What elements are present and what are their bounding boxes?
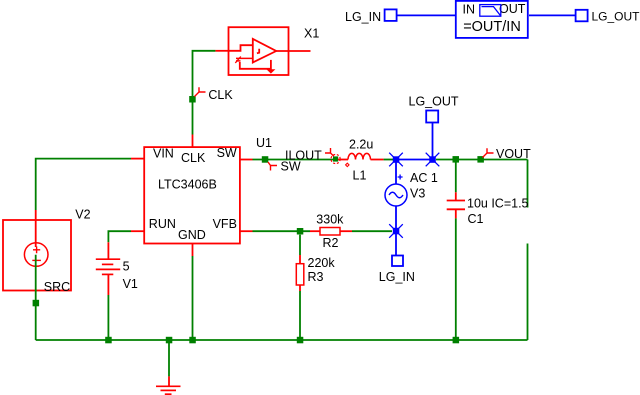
svg-text:V1: V1 bbox=[123, 277, 138, 291]
svg-text:CLK: CLK bbox=[208, 88, 233, 102]
junction bus V1 bbox=[105, 337, 112, 344]
wire X1 input to CLK bbox=[193, 51, 216, 135]
svg-text:X1: X1 bbox=[304, 27, 319, 41]
wire LG_OUT drop bbox=[432, 123, 434, 160]
svg-text:5: 5 bbox=[123, 260, 130, 274]
X1 input stub bbox=[215, 50, 228, 52]
wire V1 to bus bbox=[107, 295, 109, 340]
svg-text:330k: 330k bbox=[316, 213, 344, 227]
X1 reference symbol bbox=[236, 57, 253, 59]
junction after SW pin bbox=[262, 156, 269, 163]
AC source V3 bbox=[385, 160, 438, 232]
svg-text:SRC: SRC bbox=[44, 280, 70, 294]
svg-text:GND: GND bbox=[178, 228, 206, 242]
resistor R2 bbox=[310, 213, 352, 251]
current probe ILOUT bbox=[325, 148, 349, 167]
svg-text:AC 1: AC 1 bbox=[410, 171, 438, 185]
pin stub VIN (left) bbox=[131, 158, 144, 160]
IC U1 LTC3406B bbox=[131, 135, 272, 257]
X1 internal ground run bbox=[240, 62, 271, 69]
svg-text:R2: R2 bbox=[323, 236, 339, 250]
junction bus R3 bbox=[297, 337, 304, 344]
svg-text:VFB: VFB bbox=[213, 217, 237, 231]
svg-text:IN: IN bbox=[463, 3, 476, 17]
svg-text:VOUT: VOUT bbox=[496, 147, 531, 161]
V2 plus bbox=[33, 246, 40, 253]
wire GND pin to bus bbox=[192, 256, 194, 340]
port terminal LG_IN (bottom) bbox=[392, 256, 403, 267]
V2 top lead bbox=[35, 210, 37, 247]
subcircuit X1 bbox=[215, 27, 319, 75]
V2 bottom lead bbox=[35, 255, 37, 297]
battery V1 bbox=[96, 242, 138, 295]
wire VOUT to bus (right drop lower) bbox=[527, 244, 529, 341]
X1 ground arrow bbox=[266, 69, 275, 73]
port terminal LG_OUT (top) bbox=[576, 10, 588, 21]
inductor L1 bbox=[338, 138, 384, 183]
svg-text:V2: V2 bbox=[75, 208, 90, 222]
svg-text:V3: V3 bbox=[410, 186, 425, 200]
wire LG_IN to transfer block bbox=[397, 14, 456, 16]
svg-text:LG_IN: LG_IN bbox=[345, 10, 381, 24]
node X junction top-right bbox=[426, 153, 440, 167]
svg-text:LG_IN: LG_IN bbox=[379, 270, 415, 284]
wire VIN from V2 bbox=[36, 159, 131, 210]
junction R2/R3 bbox=[297, 228, 304, 235]
port terminal LG_IN (top) bbox=[385, 9, 397, 21]
pin stub GND (bottom) bbox=[192, 244, 194, 257]
node X junction top-left bbox=[389, 153, 403, 167]
svg-text:R3: R3 bbox=[308, 270, 324, 284]
junction bus GND pin bbox=[189, 337, 196, 344]
transfer function block OUT/IN bbox=[456, 1, 528, 38]
svg-text:=OUT/IN: =OUT/IN bbox=[463, 19, 521, 35]
V2 circle bbox=[24, 243, 48, 267]
wire between X junctions (blue) bbox=[396, 159, 433, 161]
svg-text:LG_OUT: LG_OUT bbox=[409, 95, 459, 109]
pin stub SW (right) bbox=[240, 159, 253, 161]
X1 input step wire bbox=[229, 45, 253, 51]
svg-text:SW: SW bbox=[217, 146, 237, 160]
net marker CLK bbox=[195, 87, 206, 96]
pin stub VFB (right) bbox=[240, 230, 253, 232]
ground symbol bbox=[156, 340, 181, 394]
wire transfer block to LG_OUT bbox=[529, 14, 576, 16]
wire SW to probe bbox=[253, 159, 334, 161]
V2 minus bbox=[32, 259, 41, 261]
node X junction bottom bbox=[389, 224, 403, 238]
pin stub RUN (left) bbox=[131, 230, 144, 232]
svg-text:LTC3406B: LTC3406B bbox=[158, 177, 217, 191]
svg-text:10u IC=1.5: 10u IC=1.5 bbox=[467, 197, 529, 211]
svg-text:CLK: CLK bbox=[181, 151, 206, 165]
wire VOUT run bbox=[436, 159, 528, 161]
ground bus wire bbox=[36, 339, 528, 341]
resistor R3 bbox=[296, 235, 335, 340]
wire L1 to junction bbox=[384, 159, 396, 161]
net marker SW bbox=[268, 162, 277, 171]
svg-text:RUN: RUN bbox=[149, 217, 176, 231]
svg-text:LG_OUT: LG_OUT bbox=[592, 10, 640, 24]
X1 output wire bbox=[276, 50, 310, 52]
port terminal LG_OUT (mid) bbox=[426, 111, 438, 123]
svg-text:OUT: OUT bbox=[499, 2, 526, 16]
wire VOUT to bus (right drop upper) bbox=[527, 160, 529, 208]
svg-text:L1: L1 bbox=[353, 169, 367, 183]
junction bus ground bbox=[166, 337, 173, 344]
voltage source V2 SRC bbox=[3, 208, 91, 297]
svg-text:220k: 220k bbox=[308, 256, 336, 270]
pin stub CLK (top) bbox=[192, 135, 194, 148]
junction VOUT bbox=[477, 156, 484, 163]
svg-text:ILOUT: ILOUT bbox=[285, 148, 322, 162]
wire to LG_IN port bbox=[395, 231, 397, 256]
svg-text:U1: U1 bbox=[256, 136, 272, 150]
wire V2 to bus bbox=[35, 297, 37, 340]
svg-text:C1: C1 bbox=[468, 212, 484, 226]
junction CLK bbox=[189, 96, 196, 103]
net marker VOUT bbox=[483, 148, 494, 157]
junction below V2 bbox=[33, 300, 40, 307]
svg-text:2.2u: 2.2u bbox=[349, 138, 373, 152]
wire RUN to V1 bbox=[108, 231, 131, 242]
wire VFB to divider bbox=[253, 230, 311, 232]
X1 triangle bbox=[253, 39, 276, 63]
wire R2 to bottom X junction bbox=[352, 230, 392, 232]
svg-text:VIN: VIN bbox=[153, 147, 174, 161]
capacitor C1 bbox=[447, 160, 529, 341]
junction C1 top bbox=[453, 156, 460, 163]
junction bus C1 bbox=[453, 337, 460, 344]
X1 J mark bbox=[257, 49, 259, 54]
